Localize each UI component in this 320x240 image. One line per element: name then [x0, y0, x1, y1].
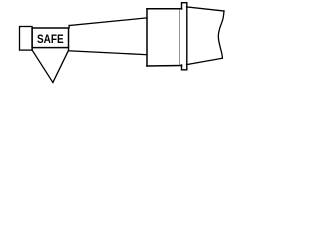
flange rib [182, 3, 187, 70]
SAFE label box [32, 28, 68, 48]
cylinder bottom edge [147, 65, 182, 68]
pointer triangle right edge [53, 51, 68, 83]
box left stub [31, 48, 33, 51]
cylinder end edge (thin) [179, 10, 181, 65]
break line [218, 11, 224, 58]
cylinder top edge [147, 8, 182, 10]
cone bottom edge [69, 51, 148, 55]
pointer triangle left edge [32, 50, 53, 82]
svg-text:SAFE: SAFE [37, 32, 64, 46]
cone top edge [69, 18, 147, 26]
cylinder left edge [146, 9, 148, 66]
taper bottom edge [187, 58, 223, 64]
box right stub [68, 48, 70, 51]
cone step up [68, 26, 70, 29]
taper top edge [187, 7, 225, 11]
knob rect [20, 27, 33, 51]
